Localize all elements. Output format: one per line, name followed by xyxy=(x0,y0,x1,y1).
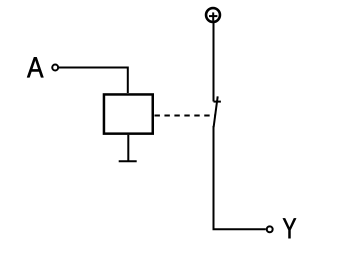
node Y label xyxy=(283,218,296,238)
wire coil to ground xyxy=(127,135,129,162)
node A label xyxy=(27,57,43,77)
wire A to coil xyxy=(59,68,128,94)
relay coil K1 xyxy=(104,94,153,133)
terminal A xyxy=(52,65,58,71)
ground xyxy=(119,160,137,162)
contact fixed tick xyxy=(214,101,221,103)
mechanical linkage (dashed) xyxy=(155,115,216,117)
terminal Y xyxy=(267,226,273,232)
wire supply to contact xyxy=(213,23,215,102)
wire contact to Y xyxy=(214,126,266,229)
contact arm (switch) xyxy=(214,96,218,127)
supply + terminal xyxy=(206,8,220,22)
